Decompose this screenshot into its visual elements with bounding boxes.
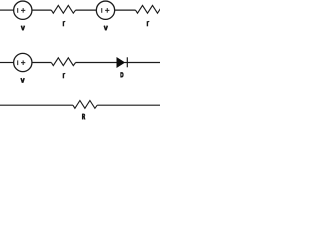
resistor r1	[51, 5, 75, 13]
wire row2 left	[0, 62, 14, 64]
voltage source V2	[96, 1, 114, 19]
label v of V2	[104, 26, 107, 31]
wire row2 V3-r3	[32, 62, 51, 64]
diode D	[117, 57, 128, 67]
resistor r2 (clipped at right edge)	[136, 5, 161, 13]
wire row3 left	[0, 104, 73, 106]
wire row1 left	[0, 9, 14, 11]
voltage source V3	[14, 53, 32, 71]
label v of V3	[21, 78, 24, 83]
wire row3 right	[97, 104, 160, 106]
wire row2 r3-D	[76, 62, 117, 64]
voltage source V1	[14, 1, 32, 19]
label r of r3	[63, 73, 65, 78]
label v of V1	[21, 26, 24, 31]
wire row1 V1-r1	[32, 9, 51, 11]
wire row1 V2-r2	[115, 9, 136, 11]
resistor r3	[51, 58, 75, 66]
wire row1 r1-V2	[76, 9, 97, 11]
label r of r2	[147, 21, 149, 26]
label D of diode	[120, 72, 123, 77]
resistor R	[73, 101, 97, 109]
label R of resistor R	[82, 114, 86, 120]
wire row2 D-right	[127, 62, 160, 64]
label r of r1	[63, 21, 65, 26]
